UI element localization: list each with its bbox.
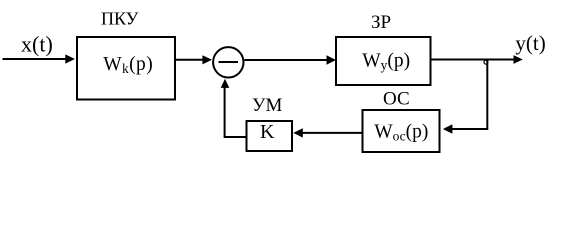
svg-text:ЗР: ЗР	[371, 12, 391, 33]
svg-text:УМ: УМ	[252, 95, 282, 116]
svg-text:ПКУ: ПКУ	[101, 9, 139, 29]
svg-text:K: K	[260, 121, 275, 143]
svg-text:x(t): x(t)	[21, 31, 53, 56]
svg-text:Wy(p): Wy(p)	[362, 50, 410, 72]
svg-text:y(t): y(t)	[515, 31, 545, 55]
svg-text:Wk(p): Wk(p)	[103, 54, 153, 76]
svg-text:ОС: ОС	[383, 89, 410, 110]
svg-text:Wос(p): Wос(p)	[374, 122, 428, 144]
